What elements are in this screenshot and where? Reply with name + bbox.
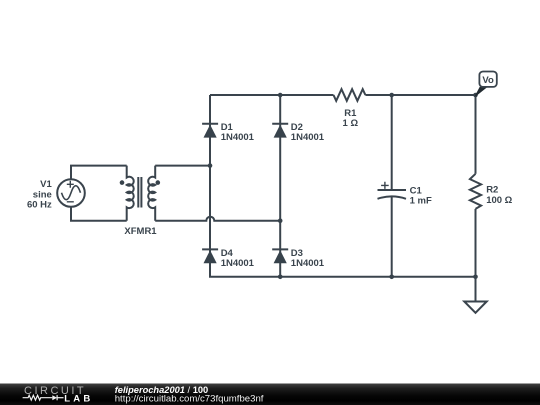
- svg-text:1N4001: 1N4001: [291, 132, 325, 143]
- svg-text:XFMR1: XFMR1: [124, 226, 157, 237]
- svg-text:1N4001: 1N4001: [221, 132, 255, 143]
- svg-text:60 Hz: 60 Hz: [27, 200, 52, 211]
- svg-text:Vo: Vo: [482, 75, 494, 86]
- svg-text:1N4001: 1N4001: [221, 258, 255, 269]
- svg-text:R2: R2: [486, 184, 498, 195]
- svg-text:LAB: LAB: [64, 393, 93, 404]
- svg-text:http://circuitlab.com/c73fqumf: http://circuitlab.com/c73fqumfbe3nf: [115, 394, 264, 405]
- svg-text:100 Ω: 100 Ω: [486, 195, 512, 206]
- svg-text:1 Ω: 1 Ω: [343, 118, 359, 129]
- svg-text:1N4001: 1N4001: [291, 258, 325, 269]
- svg-text:1 mF: 1 mF: [410, 196, 432, 207]
